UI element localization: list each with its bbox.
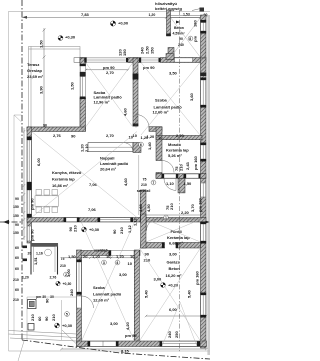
svg-text:3: 3 [103, 261, 105, 265]
szoba/garage wall [134, 250, 139, 344]
east wall main [201, 58, 207, 348]
svg-text:8,15: 8,15 [121, 349, 130, 354]
svg-text:7: 7 [152, 181, 154, 185]
tags circled [65, 142, 169, 316]
wc enclosure outdoor [31, 244, 58, 275]
svg-text:5,40: 5,40 [187, 289, 192, 298]
porch left wall [167, 10, 171, 36]
svg-text:1,50: 1,50 [68, 254, 77, 259]
top wall pier [128, 58, 141, 63]
svg-text:210: 210 [13, 278, 19, 282]
svg-text:pm 160: pm 160 [193, 155, 198, 170]
svg-text:2,20: 2,20 [176, 133, 185, 138]
svg-text:60: 60 [15, 246, 19, 250]
mosdo south wall [156, 174, 206, 179]
svg-text:23,69 m²: 23,69 m² [27, 74, 44, 79]
garage door dashes [179, 10, 181, 352]
svg-text:12,60 m²: 12,60 m² [93, 298, 110, 303]
svg-text:7,83: 7,83 [81, 12, 90, 17]
svg-text:Greslap: Greslap [27, 68, 42, 73]
svg-text:Kerámia lap: Kerámia lap [52, 177, 75, 182]
svg-text:1,20: 1,20 [22, 276, 29, 280]
wc north wall [81, 251, 111, 256]
svg-text:16,86 m²: 16,86 m² [52, 183, 69, 188]
porch right wall [201, 15, 207, 58]
svg-text:pm: pm [193, 36, 198, 42]
dim line under top windows [85, 69, 129, 71]
porch window right [201, 23, 206, 32]
svg-text:90: 90 [112, 229, 117, 234]
svg-text:60: 60 [37, 316, 42, 321]
fence line bottom-left [18, 341, 24, 361]
svg-text:4,60: 4,60 [123, 177, 128, 186]
svg-text:12,60 m²: 12,60 m² [153, 110, 170, 115]
svg-text:210: 210 [60, 264, 66, 268]
svg-text:Kerámia lap: Kerámia lap [167, 235, 190, 240]
west wall szoba1 [80, 58, 86, 66]
steps bottom-left [9, 330, 77, 344]
svg-text:4,60: 4,60 [138, 203, 143, 212]
svg-text:10: 10 [133, 133, 138, 138]
dim ticks left of wc [23, 246, 28, 262]
svg-text:1,70: 1,70 [116, 254, 125, 259]
terrace dim line [43, 28, 46, 129]
svg-text:10: 10 [130, 254, 135, 259]
svg-text:szellőző: szellőző [137, 189, 151, 193]
svg-text:Beton: Beton [174, 26, 184, 30]
porch level flag [176, 21, 180, 26]
svg-text:2,76: 2,76 [53, 133, 62, 138]
svg-text:1,50: 1,50 [70, 81, 75, 90]
svg-text:1: 1 [165, 216, 167, 220]
svg-text:+0,30: +0,30 [63, 282, 72, 286]
svg-text:3,90: 3,90 [39, 85, 44, 94]
svg-text:90: 90 [45, 298, 50, 303]
svg-text:pm 160: pm 160 [198, 197, 203, 212]
svg-text:90: 90 [43, 124, 47, 128]
svg-text:1,50: 1,50 [184, 181, 193, 186]
svg-text:75: 75 [61, 257, 65, 261]
svg-text:Laminált padló: Laminált padló [100, 161, 129, 166]
svg-text:150: 150 [13, 231, 19, 235]
wall szoba1/szoba2 [133, 58, 138, 126]
svg-text:60: 60 [15, 256, 19, 260]
left margin dims [23, 128, 25, 240]
porch diagonals [171, 18, 201, 58]
szellozo pier [178, 178, 185, 193]
hall north wall [149, 127, 162, 132]
svg-text:3,00: 3,00 [66, 268, 71, 277]
svg-text:7,06: 7,06 [88, 207, 97, 212]
svg-text:2,70: 2,70 [106, 70, 115, 75]
svg-text:Terasz: Terasz [27, 62, 39, 67]
svg-text:20: 20 [28, 252, 32, 256]
porch top edge [167, 16, 207, 18]
east wall tick [200, 73, 206, 77]
top wall right segment under porch [161, 58, 207, 63]
svg-text:+0,00: +0,00 [118, 21, 129, 26]
svg-text:4,50: 4,50 [146, 203, 151, 212]
counter band kitchen [88, 143, 141, 153]
svg-text:180: 180 [193, 20, 198, 27]
svg-text:20: 20 [83, 254, 88, 259]
level marker +0,30 wc [56, 281, 72, 286]
svg-text:150: 150 [122, 49, 127, 56]
svg-text:6,00: 6,00 [36, 157, 41, 166]
mosdo west wall [156, 127, 162, 161]
svg-text:Laminált padló: Laminált padló [93, 292, 122, 297]
mosdo north wall [156, 136, 202, 140]
furdo west wall lower [141, 214, 146, 248]
entry door thin [175, 58, 193, 62]
svg-text:2,20: 2,20 [181, 210, 190, 215]
svg-text:210: 210 [30, 314, 35, 321]
porch tag [188, 36, 193, 41]
svg-text:6: 6 [140, 143, 142, 147]
svg-text:240: 240 [178, 43, 184, 47]
svg-text:Beton: Beton [169, 266, 181, 271]
svg-text:250: 250 [174, 331, 179, 338]
svg-text:5: 5 [66, 313, 68, 317]
svg-text:210: 210 [169, 203, 174, 210]
svg-text:210: 210 [119, 227, 124, 234]
svg-text:1,50: 1,50 [39, 39, 44, 48]
svg-text:1,20: 1,20 [92, 254, 101, 259]
dining table and chairs [35, 190, 59, 213]
door arc szoba2 [136, 115, 149, 128]
svg-text:1,40: 1,40 [147, 141, 152, 150]
svg-text:Szoba: Szoba [93, 285, 106, 290]
porch pier T [168, 48, 174, 58]
south wall openings [66, 218, 131, 222]
kitchen north wall [27, 127, 86, 132]
level marker +0,00 [110, 21, 128, 27]
top dimension line [22, 16, 208, 19]
svg-text:210: 210 [51, 314, 56, 321]
svg-text:90: 90 [15, 223, 19, 227]
svg-text:90: 90 [145, 252, 150, 257]
mosdo door [162, 161, 174, 173]
svg-text:3,70: 3,70 [190, 203, 195, 212]
garage dim line [145, 315, 207, 317]
window top wall 1 [87, 58, 129, 62]
neighbour offset line [14, 115, 22, 334]
svg-text:20,64 m²: 20,64 m² [100, 167, 117, 172]
svg-text:2,76: 2,76 [50, 276, 57, 280]
window top wall 2 [141, 58, 161, 62]
kitchen west wall [27, 127, 32, 243]
paper frame [9, 12, 211, 352]
section cut mark [0, 221, 21, 223]
door arc 1,10 [164, 178, 176, 190]
svg-text:8: 8 [189, 37, 191, 41]
svg-text:2,43: 2,43 [185, 161, 190, 170]
svg-text:1,16: 1,16 [36, 252, 43, 256]
svg-text:3,00: 3,00 [110, 321, 119, 326]
bottom wall [77, 341, 207, 347]
south wall north block [27, 218, 206, 223]
svg-text:210: 210 [141, 183, 147, 187]
chimney block [133, 74, 139, 80]
garage north wall [141, 243, 165, 249]
top wall left corner [80, 58, 87, 63]
west wall south wing [77, 250, 82, 347]
svg-text:1,20: 1,20 [149, 13, 156, 17]
svg-text:pm 90: pm 90 [30, 229, 35, 241]
svg-text:2,10: 2,10 [84, 143, 89, 152]
svg-text:Konyha, étkező: Konyha, étkező [52, 170, 82, 175]
svg-text:szellőző: szellőző [94, 249, 108, 253]
svg-text:210: 210 [13, 298, 19, 302]
svg-text:1,53: 1,53 [183, 13, 190, 17]
svg-text:Fürdő: Fürdő [171, 229, 183, 234]
porch edge lines [27, 297, 77, 341]
heat pump unit [200, 8, 205, 12]
hall dim line [138, 155, 140, 215]
level markers lower [82, 227, 100, 232]
furdo west wall [140, 190, 146, 222]
svg-text:10: 10 [158, 135, 163, 140]
svg-text:5,40: 5,40 [144, 289, 149, 298]
svg-text:90: 90 [71, 134, 76, 139]
wc circle [45, 249, 52, 256]
big diagonals main [32, 63, 201, 347]
svg-text:2,70: 2,70 [106, 133, 115, 138]
right paper gray stripe [207, 15, 210, 355]
svg-text:1,51: 1,51 [33, 256, 38, 265]
svg-text:210: 210 [73, 225, 78, 232]
porch bottom-left columns [28, 300, 37, 309]
svg-text:+0,30: +0,30 [89, 227, 100, 232]
furdo north thin [144, 215, 201, 219]
svg-text:Garázs: Garázs [167, 260, 181, 265]
kitchen west windows [27, 140, 31, 182]
svg-text:Kerámia lap: Kerámia lap [166, 148, 189, 153]
svg-text:4,59 m²: 4,59 m² [173, 32, 186, 36]
terrace outline [29, 47, 81, 128]
svg-text:12,96 m²: 12,96 m² [94, 99, 111, 104]
svg-text:pm 160: pm 160 [195, 270, 200, 285]
svg-text:1,12: 1,12 [127, 224, 132, 233]
svg-text:3,60: 3,60 [189, 92, 194, 101]
level marker +0,30 terrace [58, 35, 76, 41]
svg-text:1,10: 1,10 [166, 181, 175, 186]
svg-text:150: 150 [13, 205, 19, 209]
svg-text:+0,30: +0,30 [65, 35, 76, 40]
svg-text:5,26 m²: 5,26 m² [168, 153, 182, 158]
property boundary dash-dot line [22, 0, 210, 359]
svg-text:90: 90 [44, 316, 49, 321]
dim line wc strip [64, 257, 138, 259]
svg-text:1,20: 1,20 [141, 135, 150, 140]
svg-text:240: 240 [69, 289, 74, 296]
window jambs [27, 20, 206, 346]
svg-text:+0,30: +0,30 [62, 323, 73, 328]
top wall lintel box [74, 58, 80, 63]
svg-text:90: 90 [15, 197, 19, 201]
svg-text:3,00: 3,00 [119, 272, 128, 277]
svg-text:3,00: 3,00 [169, 252, 178, 257]
svg-text:150: 150 [13, 214, 19, 218]
svg-text:60: 60 [15, 288, 19, 292]
svg-text:3,50: 3,50 [169, 71, 178, 76]
svg-text:Szoba: Szoba [155, 98, 168, 103]
svg-text:pm 90: pm 90 [30, 198, 35, 210]
furdo door arc [147, 219, 159, 231]
svg-text:10: 10 [128, 261, 133, 266]
east windows [201, 80, 206, 315]
svg-text:75: 75 [143, 178, 147, 182]
svg-text:4,60: 4,60 [123, 107, 128, 116]
svg-text:60: 60 [15, 267, 19, 271]
svg-text:150: 150 [150, 47, 155, 54]
